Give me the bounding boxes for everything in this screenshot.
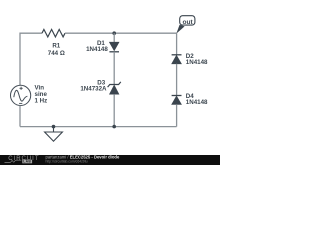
svg-text:LAB: LAB bbox=[23, 160, 31, 164]
diode D1 bbox=[109, 42, 119, 52]
svg-text:http://circuitlab.com/c64z9tu: http://circuitlab.com/c64z9tu bbox=[46, 160, 88, 164]
wire: middle branch between D1 and D3 bbox=[113, 52, 115, 85]
wire: left branch (top-left corner, from source top up and right to resistor) bbox=[20, 33, 42, 85]
voltage source V1 (Vin) bbox=[11, 85, 31, 105]
wire: source bottom to bottom-left corner bbox=[19, 106, 21, 127]
wire: right branch bottom (D4 to bottom-right corner) bbox=[176, 104, 178, 126]
out flag box bbox=[180, 16, 195, 25]
CircuitLab logo bbox=[5, 156, 40, 164]
diode D4 bbox=[172, 96, 182, 105]
ground bbox=[45, 127, 63, 142]
wire: top horizontal from resistor to right corner bbox=[65, 32, 177, 34]
out flag tail bbox=[176, 25, 184, 34]
svg-text:1 Hz: 1 Hz bbox=[35, 97, 48, 104]
resistor R1 bbox=[42, 29, 65, 37]
svg-text:out: out bbox=[182, 19, 193, 26]
svg-text:744 Ω: 744 Ω bbox=[48, 50, 65, 57]
diode D2 bbox=[172, 55, 182, 64]
node junction middle branch bottom bbox=[112, 125, 116, 129]
zener diode D3 bbox=[108, 82, 121, 94]
wire: bottom horizontal bbox=[20, 126, 177, 128]
svg-text:1N4148: 1N4148 bbox=[186, 99, 208, 106]
node junction at ground bbox=[52, 125, 56, 129]
wire: right branch between D2 and D4 bbox=[176, 64, 178, 96]
node junction on top wire bbox=[112, 31, 116, 35]
svg-text:1N4148: 1N4148 bbox=[186, 59, 208, 66]
svg-text:1N4732A: 1N4732A bbox=[80, 85, 107, 92]
wire: middle branch bottom (D3 to bottom wire) bbox=[113, 94, 115, 126]
wire: middle branch stem from top junction to D1 bbox=[113, 33, 115, 42]
svg-text:R1: R1 bbox=[52, 43, 60, 50]
wire: right branch top (corner down to D2) bbox=[176, 33, 178, 55]
svg-text:1N4148: 1N4148 bbox=[86, 46, 108, 53]
watermark bar bbox=[0, 155, 220, 165]
